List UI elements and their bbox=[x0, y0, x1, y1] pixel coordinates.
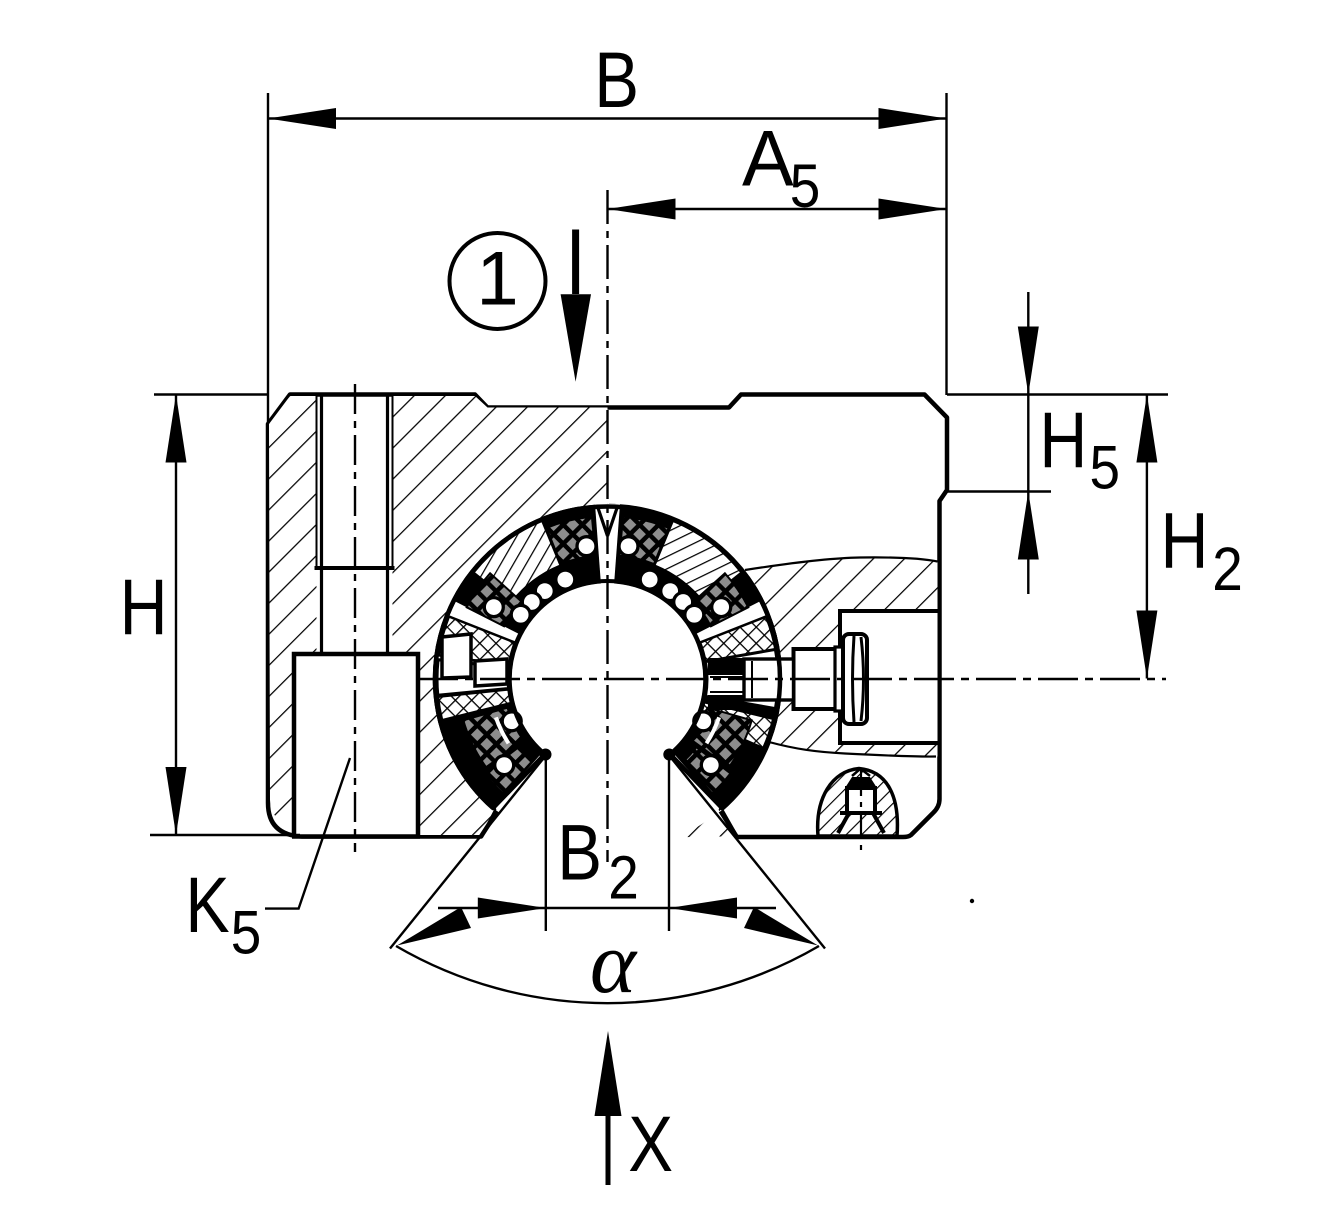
lube screw top bbox=[845, 777, 877, 788]
gray cage pad 2 oclock bbox=[694, 573, 749, 626]
horizontal centerline bbox=[418, 678, 1166, 680]
V-slot left edge bbox=[481, 811, 497, 836]
H extension bottom bbox=[150, 834, 300, 836]
alpha side line left bbox=[390, 754, 547, 949]
gray cage pad left foot bbox=[485, 747, 532, 793]
stray dot artifact bbox=[970, 899, 974, 903]
gray cage pad 4 oclock lower bbox=[692, 708, 752, 768]
lube screw body bbox=[847, 788, 875, 813]
bearing balls bbox=[577, 537, 596, 556]
left track plate 2 bbox=[475, 659, 507, 686]
thread bottom line bbox=[315, 566, 395, 570]
load direction arrow bbox=[572, 230, 579, 295]
B2 extension right bbox=[668, 753, 670, 931]
cage seam V-notch bbox=[597, 505, 618, 536]
V-slot right edge bbox=[721, 811, 737, 836]
cage tongue gap at top bbox=[595, 504, 620, 585]
svg-text:A: A bbox=[742, 114, 794, 203]
hex head bbox=[843, 634, 867, 724]
A5 arrow left bbox=[608, 199, 676, 220]
A5 dimension line bbox=[608, 208, 947, 210]
right screw sector bbox=[706, 649, 778, 708]
gray cage pad top-right bbox=[619, 517, 668, 564]
bearing right end face bbox=[670, 754, 722, 808]
B arrow right bbox=[879, 108, 947, 129]
svg-text:H: H bbox=[120, 564, 168, 652]
svg-text:1: 1 bbox=[476, 237, 518, 322]
hatch between hole and centerline around bearing bbox=[393, 396, 608, 835]
alpha arrow right bbox=[744, 907, 818, 946]
svg-text:H: H bbox=[1039, 397, 1087, 485]
mounting hole minor diameter lines bbox=[320, 396, 323, 568]
H5 dimension line bbox=[1027, 292, 1029, 594]
cage segment lower-left bbox=[438, 693, 542, 807]
B arrow left bbox=[268, 108, 336, 129]
B2 dimension line bbox=[438, 907, 776, 909]
H5 extension line bbox=[947, 393, 1168, 395]
svg-text:5: 5 bbox=[790, 152, 821, 220]
crosshatch band lower-left bbox=[438, 689, 511, 720]
screw thread detail lines bbox=[751, 661, 753, 698]
svg-text:α: α bbox=[590, 915, 638, 1012]
cage segment lower-right bbox=[673, 693, 777, 807]
lube screw legs bbox=[838, 813, 884, 833]
svg-text:B: B bbox=[557, 808, 602, 896]
H arrow up bbox=[166, 395, 187, 463]
B dimension extension lines bbox=[267, 93, 269, 424]
housing block outline (section) bbox=[268, 395, 947, 838]
H2 arrow down bbox=[1136, 611, 1157, 679]
vertical centerline bbox=[606, 190, 608, 862]
svg-text:5: 5 bbox=[1090, 434, 1121, 502]
hex head facet line bbox=[853, 636, 864, 722]
gray cage pad top-left bbox=[546, 517, 595, 564]
cage segment top-left bbox=[455, 508, 603, 634]
alpha arc bbox=[396, 946, 819, 1003]
seal end bulb right bbox=[663, 749, 675, 761]
seal end bulb left bbox=[540, 749, 552, 761]
bearing left end face bbox=[493, 754, 545, 808]
lube hole centerline bbox=[860, 770, 862, 851]
hatch left of mounting hole bbox=[269, 396, 317, 828]
label A5 bbox=[742, 114, 794, 203]
seal lip sliver left bbox=[496, 717, 509, 743]
H5 step extension line bbox=[944, 490, 1051, 492]
item balloon 1 bbox=[450, 233, 546, 329]
mounting hole centerline bbox=[354, 384, 356, 852]
H5 arrow down to top surface bbox=[1018, 327, 1039, 395]
label K5 bbox=[185, 862, 229, 950]
label B bbox=[594, 36, 639, 124]
crosshatch band upper-right bbox=[700, 617, 776, 663]
alpha side line right bbox=[668, 754, 825, 949]
B2 arrow right bbox=[669, 898, 737, 919]
label B2 bbox=[557, 808, 602, 896]
left track plate 1 bbox=[442, 634, 471, 678]
H dimension line bbox=[175, 395, 177, 836]
svg-text:H: H bbox=[1161, 497, 1209, 585]
bearing outer arc bbox=[435, 506, 780, 808]
B dimension line bbox=[268, 117, 947, 119]
screw shank bbox=[794, 649, 836, 709]
gray cage pad 8 oclock lower bbox=[463, 708, 523, 768]
outer ring hatch wedge upper-left bbox=[474, 521, 561, 602]
washer bbox=[835, 647, 843, 711]
H2 arrow up bbox=[1136, 395, 1157, 463]
mounting hole thread crest lines bbox=[316, 396, 318, 566]
outer ring hatch wedge upper-right bbox=[655, 521, 742, 602]
label H bbox=[120, 564, 168, 652]
bearing bore arc bbox=[509, 581, 705, 754]
svg-text:X: X bbox=[628, 1100, 673, 1188]
cage segment top-right bbox=[612, 508, 760, 634]
label X bbox=[628, 1100, 673, 1188]
gray cage pad 10 oclock bbox=[467, 573, 522, 626]
B2 arrow left bbox=[478, 898, 546, 919]
A5 arrow right bbox=[879, 199, 947, 220]
seal lip sliver right bbox=[707, 717, 720, 743]
svg-text:K: K bbox=[185, 862, 229, 950]
gray cage pad right foot bbox=[683, 747, 730, 793]
H arrow down bbox=[166, 767, 187, 835]
section boundary wavy line upper bbox=[745, 557, 938, 570]
counterbore bbox=[294, 654, 418, 835]
svg-text:B: B bbox=[594, 36, 639, 124]
label H2 bbox=[1161, 497, 1209, 585]
screw thread section bbox=[744, 659, 794, 700]
svg-text:2: 2 bbox=[608, 844, 639, 912]
svg-text:2: 2 bbox=[1212, 535, 1243, 603]
lube port partial section arch bbox=[818, 769, 898, 837]
hatch wedge right of V-slot bbox=[678, 810, 737, 838]
crosshatch band lower-right bbox=[698, 702, 773, 748]
H extension top bbox=[154, 393, 268, 395]
svg-text:5: 5 bbox=[231, 899, 262, 967]
label H5 bbox=[1039, 397, 1087, 485]
B2 extension left bbox=[545, 753, 547, 931]
alpha arrow left bbox=[397, 907, 471, 946]
H5 arrow up to step bbox=[1018, 492, 1039, 560]
K5 leader line bbox=[265, 758, 350, 909]
race block below screw tip bbox=[708, 695, 744, 710]
screw thread tip lines bbox=[710, 676, 744, 678]
housing bottom edge across counterbore bbox=[292, 834, 420, 839]
bearing outer sleeve C-ring bbox=[435, 506, 780, 808]
screw slot pocket fill bbox=[840, 611, 938, 743]
crosshatch band upper-left bbox=[439, 617, 515, 666]
screw slot pocket outline bbox=[840, 611, 938, 743]
H2 dimension line bbox=[1146, 395, 1148, 679]
X datum arrow bbox=[606, 1105, 611, 1185]
race block above screw tip bbox=[708, 658, 744, 675]
hatch band around clamp screw bbox=[745, 557, 938, 756]
left track plate sector bbox=[437, 660, 509, 696]
pilot bore below thread bbox=[320, 568, 323, 652]
section boundary wavy line lower bbox=[769, 742, 936, 757]
